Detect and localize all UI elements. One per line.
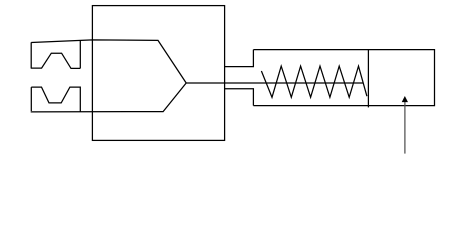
gripper lower jaw outline [31,87,80,112]
spring [261,66,367,97]
arrow head [402,97,407,102]
piston rod line [186,82,363,84]
funnel upper line [31,40,186,83]
actuator body box [92,6,224,141]
cylinder neck lower [225,89,254,106]
gripper upper jaw outline [31,41,81,69]
cylinder body [253,50,434,106]
funnel lower line [31,83,187,112]
arrow shaft [404,102,406,154]
piston plate [367,50,369,108]
cylinder neck upper [225,50,254,67]
